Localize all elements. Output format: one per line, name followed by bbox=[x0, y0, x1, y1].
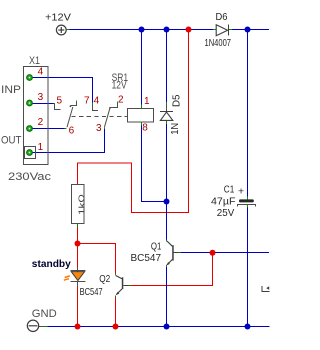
wire Q1 emitter to ground rail bbox=[166, 265, 168, 267]
wire green pin stub D6 cathode bbox=[229, 29, 232, 31]
wire LED cathode to ground rail bbox=[77, 286, 79, 326]
svg-text:BC547: BC547 bbox=[131, 252, 162, 264]
supply terminal +12V bbox=[56, 25, 66, 35]
svg-text:INP: INP bbox=[1, 84, 21, 96]
svg-text:1N4007: 1N4007 bbox=[205, 37, 232, 49]
svg-text:+: + bbox=[238, 186, 244, 198]
svg-text:1N: 1N bbox=[169, 123, 181, 135]
wire red +12V to resistor net bbox=[78, 30, 189, 213]
relay contact B lever pin3 bbox=[104, 108, 110, 128]
connector X1 pin1 highlight box bbox=[25, 147, 36, 159]
wire relay pin8 to D5 anode node bbox=[141, 122, 143, 126]
relay contact A terminal pin7 bbox=[71, 101, 77, 106]
wire D5 top vertical bbox=[166, 30, 168, 103]
wire X1 pin2 to contact pin6 bbox=[33, 128, 65, 130]
relay contact A lever pin6 bbox=[67, 107, 73, 127]
wire X1 pin3 to contact pin5 bbox=[33, 103, 54, 105]
node junction dot resistor LED Q2 bbox=[75, 241, 81, 247]
wire +12V top rail left segment bbox=[70, 29, 217, 31]
wire +12V stub green at terminal bbox=[66, 29, 69, 31]
wire ground rail bbox=[48, 326, 270, 328]
svg-text:3: 3 bbox=[38, 92, 44, 103]
svg-text:47µF: 47µF bbox=[211, 195, 236, 207]
wire green pin stub D6 anode bbox=[213, 29, 216, 31]
svg-text:+12V: +12V bbox=[45, 12, 71, 24]
svg-text:4: 4 bbox=[38, 67, 44, 78]
node junction dot Q2 emitter on ground rail bbox=[113, 324, 119, 330]
svg-text:D5: D5 bbox=[171, 94, 183, 107]
node junction dot coil wire on +12V rail bbox=[139, 27, 145, 33]
connector X1 body bbox=[24, 67, 49, 165]
svg-text:25V: 25V bbox=[217, 207, 235, 219]
node junction dot C1 wire on +12V rail bbox=[245, 27, 251, 33]
relay contact B terminal pin4 bbox=[93, 105, 99, 111]
pad X1 pin 2 bbox=[27, 126, 33, 132]
wire relay coil pin1 vertical bbox=[141, 30, 143, 105]
node junction dot Q1 base Q2 base bbox=[210, 250, 216, 256]
node junction dot C1 on ground rail bbox=[245, 324, 251, 330]
svg-text:3: 3 bbox=[96, 123, 102, 134]
capacitor C1 polarized bbox=[239, 199, 254, 202]
wire Q2 emitter to ground rail bbox=[115, 295, 117, 297]
relay contact B terminal pin2 bbox=[111, 102, 118, 108]
svg-text:D6: D6 bbox=[216, 11, 228, 23]
node junction dot D5 wire on +12V rail bbox=[164, 27, 170, 33]
node junction dot relay pin8 with D5 wire bbox=[164, 199, 170, 205]
pad X1 pin 4 bbox=[27, 75, 33, 81]
svg-text:Q2: Q2 bbox=[99, 273, 110, 285]
resistor R1 1k body bbox=[72, 185, 85, 224]
pad center holes X1 pins bbox=[29, 77, 31, 154]
svg-text:12V: 12V bbox=[112, 79, 128, 91]
wire LED node right to Q2 collector bbox=[78, 244, 116, 274]
svg-text:X1: X1 bbox=[29, 55, 40, 67]
svg-text:C1: C1 bbox=[224, 183, 235, 195]
wire top rail segment D6 cathode to right end bbox=[229, 29, 269, 31]
relay contact A terminal pin5 bbox=[55, 104, 61, 110]
wire X1 pin4 to contact pin4 bbox=[33, 78, 93, 103]
svg-text:Q1: Q1 bbox=[151, 241, 162, 253]
wire Q2 base to Q1 base node bbox=[129, 285, 131, 287]
node junction dot Q1 emitter on ground rail bbox=[164, 324, 170, 330]
svg-text:1kΩ: 1kΩ bbox=[76, 194, 86, 215]
svg-text:GND: GND bbox=[32, 308, 57, 320]
wire Q1 base horizontal bbox=[178, 252, 180, 254]
wire LED node down to LED anode bbox=[77, 244, 79, 268]
wire D5 anode down to Q1 collector bbox=[166, 121, 168, 125]
svg-text:230Vac: 230Vac bbox=[8, 171, 52, 183]
svg-text:OUT: OUT bbox=[1, 135, 22, 147]
svg-text:2: 2 bbox=[38, 117, 44, 128]
wire X1 pin1 to contact pin3 bbox=[33, 129, 105, 152]
svg-text:4: 4 bbox=[94, 95, 100, 106]
svg-text:6: 6 bbox=[69, 126, 75, 137]
LED standby bbox=[71, 268, 86, 287]
ground terminal GND bbox=[27, 320, 38, 331]
diode D6 bbox=[216, 25, 228, 36]
node junction dot red net on +12V rail bbox=[186, 27, 192, 33]
svg-text:5: 5 bbox=[57, 95, 63, 106]
node junction dot LED cathode on ground rail bbox=[75, 324, 81, 330]
diode D5 bbox=[160, 112, 173, 121]
svg-text:BC547: BC547 bbox=[80, 286, 103, 298]
svg-text:2: 2 bbox=[118, 95, 124, 106]
svg-text:1: 1 bbox=[144, 96, 150, 107]
wire C1 bottom to ground rail bbox=[247, 205, 249, 208]
net flag symbol bottom right bbox=[262, 286, 270, 292]
pad X1 pin 1 bbox=[27, 150, 33, 156]
svg-text:standby: standby bbox=[32, 258, 71, 270]
relay coil SR1 bbox=[128, 109, 154, 123]
svg-text:8: 8 bbox=[142, 122, 148, 133]
relay mechanical linkage dashed bbox=[72, 116, 128, 118]
wire resistor bottom to LED node bbox=[77, 224, 79, 227]
svg-text:1: 1 bbox=[38, 142, 44, 153]
LED rays bbox=[65, 276, 70, 278]
transistor Q1 BC547 mirrored bbox=[166, 241, 178, 266]
svg-text:7: 7 bbox=[84, 95, 90, 106]
transistor Q2 BC547 mirrored bbox=[116, 276, 129, 296]
wire C1 top vertical bbox=[247, 30, 249, 197]
pad X1 pin 3 bbox=[27, 100, 33, 106]
